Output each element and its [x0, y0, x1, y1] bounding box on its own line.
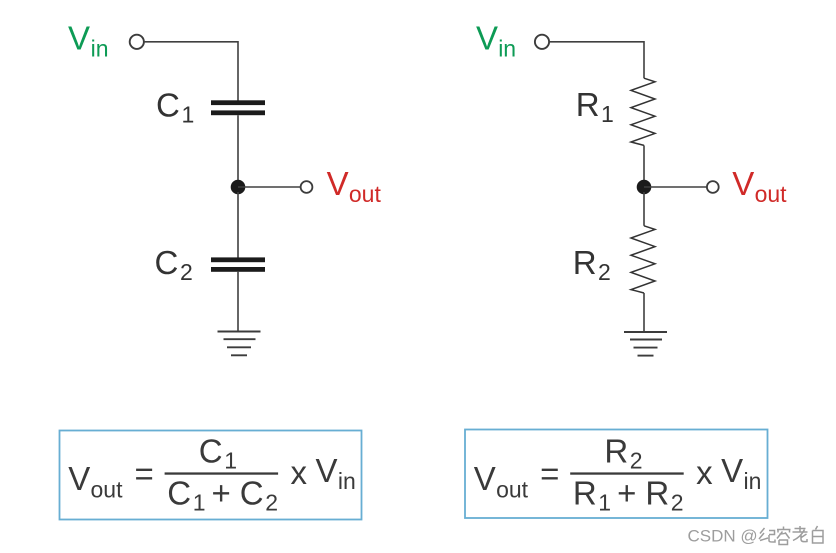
terminal Vout (left circuit) — [301, 181, 313, 193]
ground (right circuit) — [624, 332, 667, 356]
svg-text:2: 2 — [598, 259, 611, 285]
label C1 — [156, 87, 194, 128]
svg-text:out: out — [755, 181, 788, 207]
formula box (capacitive divider) — [60, 431, 362, 520]
ground (left circuit) — [218, 332, 261, 356]
svg-text:V: V — [327, 165, 349, 202]
watermark CSDN @ — [688, 527, 758, 546]
svg-text:in: in — [338, 468, 356, 494]
net label Vin (right circuit) — [476, 19, 516, 61]
svg-text:in: in — [91, 35, 109, 61]
wire Vin terminal to R1 top — [549, 42, 644, 78]
capacitor C2 — [211, 257, 265, 271]
svg-text:out: out — [91, 477, 124, 503]
svg-text:V: V — [474, 460, 496, 497]
svg-text:R: R — [573, 475, 597, 512]
wire node B to R2 top — [643, 192, 645, 226]
svg-text:out: out — [349, 181, 382, 207]
svg-text:+: + — [617, 475, 636, 512]
svg-text:C: C — [156, 87, 180, 124]
svg-text:CSDN @: CSDN @ — [688, 527, 758, 546]
svg-text:x: x — [696, 454, 713, 491]
formula box (resistive divider) — [465, 430, 768, 519]
svg-text:R: R — [604, 432, 628, 469]
junction node B (right circuit) — [637, 180, 652, 195]
svg-text:2: 2 — [265, 490, 278, 516]
svg-text:x: x — [291, 454, 308, 491]
svg-text:in: in — [744, 468, 762, 494]
wire C1 bottom to node A — [237, 115, 239, 182]
svg-text:V: V — [721, 452, 743, 489]
svg-text:1: 1 — [598, 490, 611, 516]
svg-text:1: 1 — [182, 102, 195, 128]
svg-text:2: 2 — [180, 259, 193, 285]
net label Vout (right circuit) — [732, 165, 787, 207]
svg-text:1: 1 — [224, 447, 237, 473]
svg-text:V: V — [732, 165, 754, 202]
net label Vout (left circuit) — [327, 165, 382, 207]
formula text Vout = C1/(C1+C2) x Vin — [68, 432, 356, 515]
capacitor C1 — [211, 100, 265, 115]
svg-text:V: V — [316, 452, 338, 489]
formula text Vout = R2/(R1+R2) x Vin — [474, 432, 762, 515]
svg-text:2: 2 — [671, 490, 684, 516]
svg-text:=: = — [135, 455, 154, 492]
terminal Vout (right circuit) — [707, 181, 719, 193]
wire node A to Vout terminal — [238, 186, 301, 188]
resistor R2 — [631, 226, 655, 293]
watermark CJK characters (drawn strokes) — [759, 526, 823, 545]
label C2 — [155, 244, 193, 285]
svg-text:C: C — [199, 432, 223, 469]
svg-text:C: C — [240, 475, 264, 512]
terminal Vin (right circuit) — [535, 35, 549, 49]
svg-text:2: 2 — [630, 447, 643, 473]
wire C2 bottom to ground — [237, 272, 239, 332]
wire R2 bottom to ground — [643, 293, 645, 332]
svg-text:R: R — [573, 244, 597, 281]
svg-text:R: R — [645, 475, 669, 512]
label R1 — [576, 86, 614, 127]
wire node A to C2 top — [237, 192, 239, 258]
svg-text:V: V — [68, 460, 90, 497]
svg-text:1: 1 — [601, 101, 614, 127]
svg-text:out: out — [496, 477, 529, 503]
terminal Vin (left circuit) — [130, 35, 144, 49]
wire node B to Vout terminal — [644, 186, 707, 188]
wire Vin terminal to C1 top — [144, 42, 238, 101]
svg-text:R: R — [576, 86, 600, 123]
svg-text:V: V — [68, 19, 90, 56]
svg-text:C: C — [155, 244, 179, 281]
svg-text:V: V — [476, 19, 498, 56]
resistor R1 — [631, 78, 655, 145]
net label Vin (left circuit) — [68, 19, 109, 61]
junction node A (left circuit) — [231, 180, 246, 195]
svg-text:1: 1 — [193, 490, 206, 516]
svg-text:=: = — [540, 455, 559, 492]
label R2 — [573, 244, 611, 285]
svg-text:C: C — [167, 475, 191, 512]
svg-text:in: in — [498, 35, 516, 61]
wire R1 bottom to node B — [643, 145, 645, 182]
svg-text:+: + — [212, 475, 231, 512]
